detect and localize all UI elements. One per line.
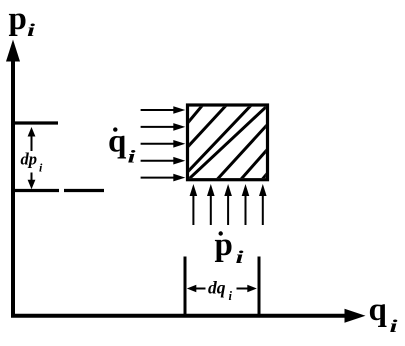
dq_i dimension arrow right <box>237 285 257 293</box>
left inflow arrow 3 <box>141 140 186 148</box>
upper tick on p axis <box>11 121 58 124</box>
bottom inflow arrow 4 <box>242 184 250 225</box>
dp_i dimension arrow down <box>28 173 36 190</box>
bottom inflow arrow 2 <box>207 184 215 225</box>
label dq_i <box>208 278 233 304</box>
dashed level line (lower) <box>11 189 104 192</box>
bottom inflow arrow 3 <box>224 184 232 225</box>
bottom inflow arrow 1 <box>190 184 198 225</box>
svg-text:q: q <box>108 123 127 159</box>
left inflow arrow 5 <box>141 174 186 182</box>
svg-text:i: i <box>128 147 136 167</box>
left tick on q axis <box>184 257 187 315</box>
svg-text:i: i <box>236 247 244 267</box>
left inflow arrow 2 <box>141 123 186 131</box>
y-axis (p axis) <box>6 40 20 318</box>
svg-text:i: i <box>229 289 233 303</box>
dq_i dimension arrow left <box>187 285 206 293</box>
bottom inflow arrow 5 <box>259 184 267 225</box>
left inflow arrow 1 <box>141 106 186 114</box>
svg-text:p: p <box>9 1 27 37</box>
x-axis (q axis) <box>11 309 366 323</box>
left inflow arrow 4 <box>141 157 186 165</box>
svg-text:q: q <box>369 292 388 328</box>
label dp_i <box>21 150 44 175</box>
right tick on q axis <box>258 257 261 315</box>
dp_i dimension arrow up <box>28 127 36 151</box>
svg-text:dq: dq <box>208 278 226 298</box>
svg-text:p: p <box>215 227 233 263</box>
svg-text:dp: dp <box>21 150 38 169</box>
label qdot_i <box>108 123 136 166</box>
label q_i (x-axis) <box>369 292 398 336</box>
label pdot_i <box>215 227 244 267</box>
svg-text:i: i <box>390 316 398 336</box>
label p_i (y-axis) <box>9 1 36 40</box>
hatched cell (square) <box>184 101 270 185</box>
svg-text:i: i <box>27 20 35 40</box>
